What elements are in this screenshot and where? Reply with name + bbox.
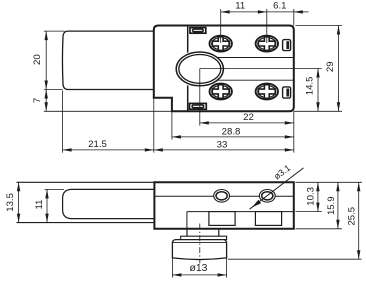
dim 6.1 outside arrow tail — [294, 11, 309, 13]
svg-text:33: 33 — [217, 140, 228, 151]
large oval opening (outer) — [176, 52, 223, 86]
dim line 20 — [45, 31, 47, 89]
svg-text:11: 11 — [235, 1, 245, 12]
horizontal partition line upper — [217, 57, 294, 59]
dim line Ø13 — [172, 274, 226, 276]
svg-text:13.5: 13.5 — [5, 193, 16, 212]
svg-text:15.9: 15.9 — [326, 196, 337, 215]
oval centre drop line (dim 22 left extension) — [199, 69, 201, 126]
svg-text:21.5: 21.5 — [88, 139, 107, 150]
Ø13 left extension — [171, 259, 173, 278]
screw bottom-left — [210, 84, 232, 100]
plunger flange — [181, 236, 227, 239]
dim line 21.5 — [63, 149, 154, 151]
dim line 22 — [200, 122, 294, 124]
plunger stem right edge — [218, 229, 220, 236]
svg-text:22: 22 — [243, 112, 254, 123]
dim 6.1 extension line right (body right edge above) — [293, 9, 295, 26]
bottom edge extension left (dim 7) — [44, 110, 172, 112]
plunger centre line (dash-dot) — [199, 224, 201, 264]
dim line 11 — [221, 11, 267, 13]
inner vertical parting line (lower segment) — [187, 85, 189, 111]
horizontal partition line lower — [217, 79, 294, 81]
recess strip extension right — [296, 211, 323, 213]
side bar top edge — [17, 181, 155, 183]
side body outline — [154, 182, 293, 229]
dim line 14.5 — [317, 69, 319, 112]
side bottom extension right — [296, 228, 343, 230]
side bar bottom edge — [17, 222, 155, 224]
Ø13 right extension — [226, 259, 228, 278]
svg-text:ø13: ø13 — [190, 263, 208, 274]
screw bottom-right — [256, 84, 278, 100]
dim 29 top extension — [296, 25, 343, 27]
svg-text:7: 7 — [32, 98, 43, 103]
dim 20 top extension — [44, 30, 65, 32]
dim 28.8 left extension (step) — [171, 111, 173, 139]
svg-text:6.1: 6.1 — [273, 1, 286, 12]
dim 21.5/33 shared extension (body left edge) — [153, 98, 155, 153]
large oval opening (inner) — [179, 55, 221, 84]
mounting tab top — [190, 28, 206, 34]
bottom edge extension right — [294, 110, 342, 112]
side clip upper — [283, 40, 291, 51]
dim line 25.5 — [358, 182, 360, 259]
dim line 15.9 — [337, 182, 339, 229]
svg-text:14.5: 14.5 — [304, 77, 315, 96]
dim 11 extension line right — [266, 9, 268, 43]
svg-text:11: 11 — [34, 200, 45, 210]
lever top extension — [45, 188, 65, 190]
cap bottom extension right — [228, 258, 362, 260]
plunger stem left edge — [186, 229, 188, 236]
screw top-left — [210, 36, 232, 52]
button cap outline — [172, 240, 226, 260]
dim line 33 — [154, 149, 294, 151]
button cap rim line — [173, 242, 227, 244]
dim 11 (side) dim line — [46, 189, 48, 222]
dim line 7 — [45, 90, 47, 112]
dim line 6.1 — [267, 11, 294, 13]
dim line 28.8 — [172, 136, 294, 138]
inner vertical parting line (upper segment) — [187, 26, 189, 53]
svg-text:28.8: 28.8 — [222, 127, 241, 138]
dim 20/7 shared extension at lever bottom — [44, 89, 63, 91]
dim line 29 — [338, 26, 340, 112]
side top edge extension right — [296, 181, 363, 183]
bottom recess strip line — [187, 211, 294, 213]
Ø3.1 leader arrowhead — [252, 200, 261, 208]
svg-text:29: 29 — [325, 61, 336, 72]
side hole (right oval, Ø3.1) outer — [259, 190, 275, 203]
right extension for 22/28.8/33 — [293, 111, 295, 152]
bottom notch block 2 — [255, 212, 281, 226]
bottom notch block 1 — [209, 212, 235, 226]
side hole (right oval, Ø3.1) inner — [262, 192, 273, 200]
dim line 10.3 — [317, 182, 319, 211]
lever (side view) — [63, 189, 155, 218]
Ø3.1 leader line — [250, 168, 304, 209]
dim 11 extension line left — [220, 9, 222, 43]
main housing body outline (top view) — [154, 26, 294, 112]
svg-text:10.3: 10.3 — [306, 187, 317, 206]
mounting tab bottom — [190, 103, 207, 109]
dim 21.5 left extension — [62, 91, 64, 153]
side hole (left oval) inner — [216, 192, 227, 200]
recess left vertical — [186, 212, 188, 229]
screw top-right — [256, 36, 278, 52]
dim 14.5 top extension / oval centre line — [200, 68, 322, 70]
side body partition line — [154, 195, 293, 197]
svg-text:20: 20 — [32, 54, 43, 65]
lever arm (top view, left) — [62, 31, 153, 89]
svg-text:25.5: 25.5 — [347, 207, 358, 226]
dim 13.5 dim line — [18, 182, 20, 222]
side hole (left oval) outer — [214, 190, 230, 203]
side clip lower — [283, 87, 291, 98]
